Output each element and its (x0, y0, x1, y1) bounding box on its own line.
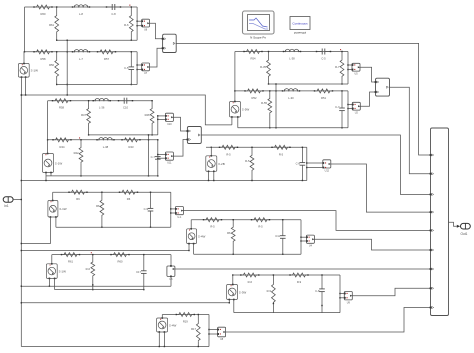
resistor Rg2 (251, 218, 270, 229)
svg-text:Out1: Out1 (461, 232, 468, 236)
wire loop D top rail (206, 146, 307, 148)
svg-text:L-38: L-38 (289, 57, 295, 61)
resistor Rg1 (203, 218, 222, 229)
wire U3 minus b (213, 171, 214, 181)
wire U4 plus (52, 192, 54, 200)
svg-text:R-7: R-7 (335, 65, 340, 69)
svg-text:R54: R54 (251, 57, 256, 61)
resistor Rj1 (176, 313, 195, 324)
mux Mux9 (430, 128, 449, 316)
voltage measurement U14 (306, 235, 314, 248)
svg-text:R60: R60 (41, 12, 46, 16)
wire U8 inputs (137, 21, 142, 26)
wire rail net3 (return rail y=250) (21, 250, 190, 251)
svg-text:R-5: R-5 (258, 225, 263, 229)
wire U15 out to Mux9 in7 (175, 268, 431, 270)
inductor L38c (96, 137, 114, 148)
wire U6 plus (190, 220, 192, 229)
svg-text:R47: R47 (81, 113, 86, 117)
wire U3 minus a (208, 171, 209, 181)
wire U1 minus to net1 (21, 77, 27, 96)
svg-text:C17: C17 (136, 270, 141, 274)
resistor R51 (314, 89, 333, 100)
inductor L30 (282, 89, 300, 100)
svg-text:R-55: R-55 (261, 101, 267, 105)
resistor R35 (260, 51, 270, 85)
wire loop B2 right edge (347, 91, 348, 128)
wire loop J right edge (208, 315, 209, 347)
wire U14 inputs (301, 237, 306, 241)
wire loop A1 top rail (25, 6, 138, 8)
resistor Ri2 (289, 273, 308, 284)
voltage measurement U2m (352, 102, 360, 114)
svg-text:R-35: R-35 (260, 65, 266, 69)
wire loop C1 top rail (48, 100, 153, 102)
wire U6 minus b (193, 244, 195, 255)
powergui block (290, 17, 310, 35)
ac source U1 (18, 63, 38, 78)
wire Mux3 out to Mux9 in2 (390, 87, 431, 174)
resistor R56 (49, 51, 59, 85)
wire loop I right edge (339, 275, 340, 313)
svg-text:R17: R17 (191, 327, 196, 331)
wire loop E top rail (53, 191, 171, 193)
resistor Ri3 (267, 274, 276, 312)
resistor Rd3 (245, 147, 254, 182)
svg-text:L-36: L-36 (99, 106, 105, 110)
port Out1 (461, 223, 471, 236)
resistor R55 (261, 90, 272, 128)
resistor R43 (121, 138, 140, 149)
svg-text:Continuous: Continuous (292, 22, 308, 26)
wire rail net1 (return of source U1) (21, 94, 232, 125)
mux Mux2 (187, 127, 202, 144)
inductor L38 (283, 49, 301, 60)
svg-text:R-5: R-5 (226, 152, 231, 156)
svg-text:R60: R60 (118, 260, 123, 264)
wire loop E bottom rail (56, 226, 171, 228)
wire U15 bottom to return (170, 276, 172, 286)
svg-text:R-5: R-5 (245, 159, 250, 163)
capacitor Cg (275, 219, 285, 255)
capacitor Ce (144, 192, 154, 228)
resistor R44 (52, 138, 71, 149)
resistor R60 (33, 5, 52, 16)
svg-text:≡-1W: ≡-1W (59, 207, 66, 211)
svg-text:U12: U12 (325, 169, 330, 172)
capacitor C10 (118, 98, 133, 110)
svg-text:R42: R42 (74, 151, 79, 155)
svg-text:C-7: C-7 (151, 155, 156, 159)
wire U13 inputs (171, 209, 176, 213)
wire U9 plus (51, 255, 53, 264)
svg-text:≡-1W: ≡-1W (59, 269, 66, 273)
wire loop B2 top rail (235, 90, 348, 92)
wire U17 inputs (209, 330, 218, 335)
wire U11s plus (161, 315, 163, 319)
resistor R58c (52, 99, 71, 110)
wire U8 out to Mux1 (150, 23, 163, 39)
wire loop G bottom rail (194, 253, 301, 255)
port In1 (3, 197, 13, 208)
capacitor Ch (136, 254, 147, 290)
wire loop I top rail (233, 274, 340, 276)
capacitor C7b (335, 90, 345, 128)
wire U10 inputs (158, 116, 166, 120)
ac source U2 (43, 153, 63, 174)
scope block (243, 11, 275, 39)
resistor R58 (33, 50, 52, 61)
resistor R47 (81, 100, 90, 136)
wire loop J top rail (162, 314, 209, 316)
svg-text:R-6: R-6 (86, 267, 91, 271)
svg-text:C-9: C-9 (144, 207, 149, 211)
wire U13 out to Mux9 in5 (183, 211, 430, 231)
resistor Rg3 (227, 219, 235, 255)
wire U14 out to Mux9 in6 (314, 239, 430, 250)
voltage measurement U17 (217, 327, 225, 341)
svg-text:R-6: R-6 (248, 280, 253, 284)
svg-text:≡-2B: ≡-2B (218, 162, 224, 166)
wire loop A2 top rail (25, 51, 138, 53)
wire loop C1 bottom rail (89, 134, 158, 136)
wire loop A1 bottom rail (57, 39, 137, 41)
wire loop A2 right edge (136, 52, 137, 85)
ac source U9 (46, 263, 66, 279)
wire U12 inputs (307, 163, 323, 168)
svg-text:R61: R61 (49, 23, 54, 27)
wire loop B1 top rail (235, 51, 348, 53)
svg-text:R43: R43 (129, 145, 134, 149)
svg-text:R-5: R-5 (210, 225, 215, 229)
wire U7 inputs (137, 65, 142, 70)
resistor Ri1 (240, 273, 259, 284)
wire U2 minus a (45, 173, 46, 182)
ac source U10s (227, 284, 247, 301)
svg-text:R-6: R-6 (124, 23, 129, 27)
svg-text:R19: R19 (183, 320, 188, 324)
svg-text:R6: R6 (76, 197, 80, 201)
svg-text:≡-4W: ≡-4W (198, 235, 205, 239)
svg-text:U11: U11 (167, 162, 172, 165)
capacitor C5b (316, 49, 331, 61)
wire U2m inputs (348, 105, 352, 109)
wire U1 plus to loops A (24, 7, 25, 64)
capacitor C8 (106, 4, 121, 16)
wire U5m out to Mux3 (360, 67, 376, 82)
wire U12 out to Mux9 in4 (331, 164, 431, 212)
wire Mux2 out to Mux9 in3 (201, 135, 430, 194)
wire U4 minus b (55, 217, 57, 227)
inductor L8 (72, 5, 90, 16)
svg-text:In1: In1 (4, 204, 9, 208)
wire U5 plus to loops B (234, 52, 235, 102)
voltage measurement U11 (165, 152, 173, 165)
svg-text:powergui: powergui (294, 31, 307, 35)
voltage measurement U12 (322, 160, 330, 173)
svg-text:C10: C10 (123, 106, 128, 110)
wire loop A2 bottom rail (57, 84, 137, 86)
svg-text:C11: C11 (275, 234, 280, 238)
wire U11s minus (159, 332, 165, 347)
svg-text:L-8: L-8 (79, 12, 83, 16)
wire U2 minus b (50, 173, 52, 176)
wire A mid vertical (67, 40, 68, 96)
wire In1 to bus (13, 199, 22, 200)
svg-text:C-5: C-5 (321, 57, 326, 61)
wire loop B1 right edge (347, 52, 348, 85)
wire loop G top rail (191, 219, 301, 221)
wire rail net5 (return rail y=346) (21, 346, 209, 348)
wire B mid vertical (275, 83, 276, 128)
wire loop C2 top rail (48, 139, 158, 141)
svg-text:R-5: R-5 (279, 152, 284, 156)
wire U10 out to Mux2 (173, 117, 187, 131)
ac source U11s (157, 317, 177, 333)
svg-text:C-5: C-5 (124, 66, 129, 70)
wire U2 plus to loops C (47, 101, 48, 154)
wire U11 inputs (157, 154, 165, 159)
wire loop G right edge (300, 220, 301, 255)
svg-text:U-1: U-1 (177, 216, 182, 219)
inductor L7 (72, 49, 90, 60)
svg-text:≡-5W: ≡-5W (242, 108, 249, 112)
voltage measurement U16 (344, 292, 352, 305)
wire U5 minus b (237, 117, 239, 128)
resistor Re3 (96, 192, 104, 228)
svg-text:R57: R57 (104, 57, 109, 61)
resistor R6 (124, 5, 133, 41)
resistor R42 (74, 137, 83, 176)
svg-text:R-9: R-9 (267, 289, 272, 293)
svg-text:R44: R44 (60, 145, 65, 149)
resistor R57 (97, 50, 116, 61)
inductor L36 (93, 98, 111, 109)
wire U9 minus a (49, 278, 50, 287)
voltage measurement U8 (141, 19, 149, 31)
wire U5m inputs (348, 65, 352, 70)
wire loop A1 right edge (136, 7, 137, 40)
svg-text:L-7: L-7 (79, 57, 83, 61)
svg-text:R6: R6 (127, 197, 131, 201)
wire loop C2 bottom rail (46, 175, 158, 177)
svg-text:C-8: C-8 (111, 12, 116, 16)
ac source U5 (230, 101, 250, 118)
wire U10s minus a (229, 300, 230, 304)
ac source U3 (206, 155, 225, 172)
wire Mux9 out (449, 222, 461, 228)
resistor Re1 (68, 190, 87, 201)
resistor Re2 (119, 190, 138, 201)
wire U2m out to Mux3 (360, 92, 375, 106)
wire loop H top rail (52, 254, 171, 256)
resistor Rh3 (86, 252, 95, 290)
svg-text:R6: R6 (96, 204, 100, 208)
wire U17 out to Mux9 in9 (226, 308, 431, 333)
voltage measurement U13 (175, 207, 183, 220)
capacitor C7 (151, 139, 161, 176)
wire U10s plus (232, 274, 233, 284)
svg-text:R46: R46 (145, 113, 150, 117)
wire loop D right edge (306, 147, 307, 180)
svg-text:N Scope Ps: N Scope Ps (250, 35, 266, 39)
wire U7 out to Mux1 (150, 48, 163, 67)
voltage measurement U5m (352, 63, 360, 75)
wire loop H bottom rail (55, 289, 144, 291)
wire loop B1 bottom rail (269, 83, 349, 85)
resistor R54 (243, 50, 262, 61)
wire C mid vertical (148, 134, 149, 176)
ac source U6 (187, 228, 206, 244)
mux Mux3 (375, 78, 390, 96)
wire loop C1 right edge (157, 115, 158, 135)
resistor R7 (335, 49, 344, 85)
svg-text:L-38: L-38 (103, 145, 109, 149)
node common bus (left vertical net) (20, 95, 22, 347)
resistor Rh1 (61, 253, 80, 264)
svg-text:C-7: C-7 (335, 105, 340, 109)
wire U4 minus a (21, 217, 51, 244)
wire loop I bottom rail (234, 312, 340, 314)
svg-text:C-8: C-8 (296, 162, 301, 166)
resistor Rd2 (271, 145, 290, 156)
svg-text:≡-1W: ≡-1W (31, 69, 38, 73)
wire loop H right edge (170, 255, 172, 266)
wire U10s minus b (233, 300, 235, 313)
resistor Rh2 (110, 253, 129, 264)
wire U9 minus b (54, 278, 56, 289)
wire rail net2 (return rail y=180) (21, 180, 307, 181)
svg-text:U10: U10 (167, 123, 172, 126)
resistor Rj2 (191, 314, 200, 347)
svg-text:R52: R52 (252, 96, 257, 100)
svg-text:C-8: C-8 (315, 289, 320, 293)
capacitor Cd (296, 147, 306, 182)
svg-text:R-9: R-9 (297, 280, 302, 284)
wire U16 inputs (340, 294, 344, 298)
mux Mux1 (162, 34, 177, 52)
wire U6 minus a (188, 244, 189, 252)
voltage measurement U7 (141, 63, 149, 75)
svg-text:R6: R6 (227, 231, 231, 235)
svg-text:R58: R58 (41, 57, 46, 61)
voltage measurement U10 (165, 113, 173, 126)
svg-text:≡-1W: ≡-1W (55, 161, 62, 165)
resistor R46 (145, 100, 154, 136)
wire loop B2 bottom rail (238, 127, 348, 129)
svg-text:L-30: L-30 (288, 96, 294, 100)
wire H return (21, 286, 171, 287)
svg-text:R58: R58 (59, 106, 64, 110)
svg-text:≡-4W: ≡-4W (169, 323, 176, 327)
wire U3 plus (211, 147, 212, 156)
wire loop E right edge (170, 192, 171, 227)
resistor R61 (49, 6, 59, 41)
wire Mux1 out to Mux9 in1 (176, 43, 430, 155)
resistor Rd1 (219, 145, 238, 156)
wire rail net4 (return rail y=302) (21, 302, 230, 303)
wire U5 minus a (231, 117, 233, 125)
capacitor Ci (315, 274, 325, 312)
svg-text:R51: R51 (321, 96, 326, 100)
svg-text:R61: R61 (68, 260, 73, 264)
resistor R52 (244, 89, 263, 100)
wire U11 out to Mux2 (173, 140, 187, 157)
wire U16 out to Mux9 in8 (352, 288, 430, 295)
ac source U4 (48, 200, 67, 218)
current measurement U15 (167, 265, 175, 281)
svg-text:≡-3W: ≡-3W (239, 290, 246, 294)
capacitor C5 (124, 51, 134, 85)
svg-text:R56: R56 (49, 63, 54, 67)
